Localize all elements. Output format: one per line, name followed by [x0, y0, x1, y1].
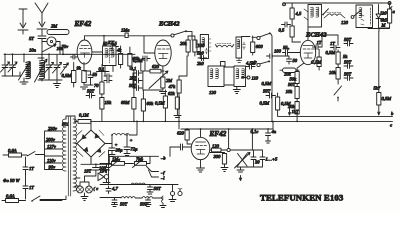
resistor 6,8M — [121, 70, 136, 122]
svg-text:50T: 50T — [344, 60, 352, 65]
resistor 0,5M (right) — [377, 93, 393, 106]
svg-text:501: 501 — [62, 122, 69, 127]
resistor 5k (det load) — [290, 3, 302, 26]
antenna 1 (dipole, far left) — [18, 9, 28, 34]
svg-text:50: 50 — [293, 58, 298, 63]
terminal circle + 110 — [242, 76, 259, 81]
svg-text:1T: 1T — [29, 185, 34, 190]
resistor 30k (V3) — [286, 82, 300, 102]
heater winding link — [75, 178, 80, 186]
svg-text:120: 120 — [341, 20, 349, 25]
switch (T6 output) — [322, 9, 360, 19]
capacitor 72u (electrolytic) — [124, 134, 138, 155]
IF transformer T1 — [103, 41, 118, 66]
svg-text:1T: 1T — [317, 40, 322, 45]
pot 1M (volume) — [100, 157, 134, 168]
IF transformer T7 — [356, 5, 373, 28]
svg-text:70: 70 — [94, 83, 99, 88]
wire: AVC vertical x=272 — [260, 53, 273, 122]
antenna 2 (main aerial) — [35, 3, 48, 35]
capacitor (x338 top) — [330, 41, 340, 50]
svg-text:110: 110 — [252, 76, 259, 81]
variable inductor L3 (with core) — [35, 54, 48, 82]
svg-text:20k: 20k — [180, 41, 188, 46]
switch contact (AM/PU) — [260, 32, 272, 52]
capacitor 55 (V1 cathode bypass) — [84, 71, 98, 82]
resistor 600 (IF damping) — [251, 36, 264, 55]
svg-text:+: + — [130, 138, 133, 143]
resistor 20k (V2) — [180, 36, 192, 52]
variable inductor L2 — [19, 54, 31, 84]
svg-text:50T: 50T — [120, 202, 128, 207]
capacitor 100 (series, AF) — [267, 46, 290, 59]
coil (AF filter, rounded) — [280, 68, 299, 73]
svg-text:1T: 1T — [330, 41, 335, 46]
wire: line b (upper, right half) — [278, 110, 394, 116]
resistor 1Ma (series) — [121, 28, 130, 38]
resistor 120 (V4 anode stopper) — [210, 144, 227, 152]
capacitor 30 (tone) — [251, 150, 260, 167]
resistor (det series) — [290, 26, 294, 42]
svg-text:200v: 200v — [46, 137, 56, 142]
capacitor 4n7 (V2 coupling) — [142, 56, 150, 61]
capacitor 0,1 (line c bypass) — [251, 129, 259, 150]
fuse 0,6A (mains bottom) — [2, 194, 26, 203]
capacitor 0,1 (osc grid) — [131, 66, 143, 76]
svg-text:ECH42: ECH42 — [158, 21, 180, 28]
svg-text:2k0: 2k0 — [197, 61, 204, 66]
svg-text:100: 100 — [99, 166, 107, 171]
svg-text:–l: –l — [160, 176, 165, 181]
svg-text:( c: ( c — [94, 186, 99, 191]
cathode network V1: resistor 0,5M — [62, 63, 76, 88]
node dots on bus — [4, 53, 64, 55]
capacitor 50T (tone net a) — [147, 185, 161, 195]
svg-text:EF42: EF42 — [74, 20, 92, 28]
svg-text:47k: 47k — [169, 84, 177, 89]
coil (tone net a) — [131, 183, 145, 185]
resistor 0,1M (T1 right) — [128, 47, 140, 70]
wire: V3 top connections — [292, 35, 338, 47]
svg-text:10n: 10n — [29, 48, 37, 53]
svg-text:+: + — [115, 142, 118, 147]
svg-text:620: 620 — [177, 131, 185, 136]
svg-text:55: 55 — [283, 45, 288, 50]
wire: -l terminal — [149, 170, 166, 181]
IF transformer T2 — [196, 35, 211, 59]
resistor 700 (AVC) — [94, 72, 104, 98]
svg-text:1Ma: 1Ma — [121, 28, 130, 33]
capacitor+ground (tone net c) — [145, 198, 151, 207]
node dots on buses — [90, 121, 274, 130]
tube ECH42 V3 envelope — [300, 40, 315, 64]
resistor 300 (V4 cathode) — [210, 153, 228, 172]
resistor 0,5M (osc grid leak) — [133, 56, 145, 90]
ground (V1 cathode) — [81, 82, 94, 89]
capacitor 50T a — [344, 37, 353, 46]
wire: V1 plate to T1 — [92, 51, 103, 53]
diode (detector, vertical) — [376, 5, 388, 29]
svg-text:50T: 50T — [344, 37, 352, 42]
wire: line c (long flat) — [92, 121, 393, 127]
resistor 2M (osc) — [161, 66, 173, 88]
svg-text:–b: –b — [160, 156, 166, 161]
node dot (bandswitch bus) — [103, 35, 105, 37]
capacitor 2kT — [130, 76, 143, 84]
ground (2nd IF) — [233, 90, 240, 94]
resistor 62k — [155, 90, 168, 121]
svg-text:110v: 110v — [47, 158, 57, 163]
wire+ground (tone bottom) — [237, 167, 263, 181]
svg-text:90v: 90v — [49, 165, 57, 170]
resistor 10k (V3 chain) — [329, 68, 340, 85]
svg-text:55: 55 — [93, 72, 98, 77]
svg-text:230v: 230v — [48, 126, 58, 131]
resistor 10k / 50k column (V3 cathode) — [284, 63, 304, 84]
wire: detector bottom rail — [368, 28, 390, 30]
power transformer TR1 primary taps — [45, 126, 63, 170]
resistor 30k (V3 divider c) — [288, 102, 299, 123]
capacitor 0,1 (V1 anode) — [97, 65, 110, 73]
fuse 0,6A (mains top) — [3, 148, 27, 157]
ground (osc) — [143, 88, 167, 94]
svg-text:c: c — [390, 122, 392, 127]
resistor 9k0 (V1 cathode) — [77, 63, 87, 86]
grid cap node V2 — [144, 34, 174, 37]
svg-text:5T: 5T — [29, 36, 34, 41]
capacitor 4,5kF — [246, 61, 257, 70]
capacitor 50T (V1 screen) — [86, 89, 95, 99]
tone pot (variable, output) — [230, 150, 253, 168]
wire: input bus y=54 — [4, 53, 135, 55]
tube EF42 V4 envelope — [191, 129, 210, 160]
svg-text:50T: 50T — [288, 82, 296, 87]
dial lamp 1 — [77, 182, 84, 193]
trimmer capacitor C3 — [45, 54, 54, 80]
resistor 100 (V2) — [188, 36, 205, 56]
capacitor 5T (tone net) — [106, 186, 118, 194]
svg-text:15k: 15k — [105, 100, 113, 105]
svg-text:300: 300 — [214, 154, 222, 159]
svg-text:62k: 62k — [168, 91, 176, 96]
pot 7k5 (tone) — [133, 156, 151, 167]
capacitor 1,5 (tone, electrolytic) — [254, 150, 278, 167]
wire: top rail y=3 — [283, 3, 392, 6]
switch (V3 out) — [334, 86, 342, 101]
resistor 0,1M (B+ from rect) — [75, 113, 91, 124]
variable capacitor C1 (tuning gang a) — [1, 54, 10, 76]
pot arrow (10k) — [42, 44, 64, 52]
grid wire to V1 — [63, 53, 77, 55]
ground (lamps) — [81, 193, 88, 201]
power transformer TR1 — [40, 116, 77, 200]
resistor 0,5M (V2 anode) — [168, 91, 181, 118]
capacitor 50 (AF bypass) — [287, 58, 298, 64]
arrow to line b — [378, 105, 380, 115]
svg-text:10k: 10k — [329, 70, 337, 75]
heater/bias RC network — [81, 156, 112, 182]
wire: V3 top to T6 — [307, 27, 309, 40]
IF transformer T5 (2nd IF sec) — [234, 66, 246, 87]
resistor (AVC divider) — [276, 93, 292, 110]
connector circle (antenna trimmer) — [42, 37, 60, 54]
choke L8 (smoothing) — [111, 121, 137, 143]
svg-text:50T: 50T — [344, 72, 352, 77]
capacitor 38u (electrolytic) — [109, 142, 123, 157]
wire: right feed x=378.5 — [374, 31, 381, 92]
wire: coil bottom bus — [38, 79, 62, 81]
resistor 0,15M — [100, 98, 112, 122]
wire: V2 anode vertical to 47k and bus — [179, 56, 187, 129]
capacitor 5T pair — [104, 74, 112, 83]
svg-text:60k: 60k — [147, 101, 155, 106]
capacitor 1T (mains a) — [23, 164, 34, 172]
capacitor 50T b — [344, 60, 353, 69]
svg-text:72μ: 72μ — [131, 147, 139, 152]
IF transformer T4 (2nd IF prim) — [208, 62, 225, 96]
pickup jack TA — [98, 166, 110, 185]
capacitor 1T (V3 anode) — [313, 40, 337, 56]
wire: volume pot to V4 grid — [170, 147, 177, 156]
tube EF42 V1 envelope — [77, 40, 92, 64]
capacitor (AVC) — [266, 93, 276, 98]
rectifier bridge GL1 — [76, 121, 112, 163]
resistor 60k (to bus) — [141, 90, 154, 121]
capacitor 1T (mains b) — [23, 183, 34, 191]
trimmer capacitor C4 — [53, 54, 62, 80]
wire: V1 top cap to bus — [85, 36, 105, 40]
capacitor (det filter) — [279, 22, 291, 34]
wire: bandswitch to V2 grid — [144, 40, 155, 53]
switch (band) — [174, 30, 192, 40]
terminal circle (IF out) — [242, 36, 261, 39]
coupling coils L5/L6 — [216, 44, 234, 48]
svg-text:EF42: EF42 — [209, 130, 227, 138]
svg-text:50k: 50k — [290, 77, 298, 82]
resistor (ratio det) — [379, 2, 392, 32]
svg-text:–f: –f — [160, 170, 165, 175]
coil (tone net c) — [140, 197, 160, 207]
IF transformer T3 — [236, 37, 246, 63]
wire: tone net bus — [100, 185, 178, 198]
svg-text:30: 30 — [255, 160, 260, 165]
capacitor ST (antenna series) — [29, 36, 46, 53]
svg-text:620: 620 — [152, 64, 160, 69]
wire: -f terminal — [147, 167, 166, 176]
svg-text:68M: 68M — [121, 100, 131, 105]
svg-text:127v: 127v — [47, 144, 57, 149]
node circle (output) — [227, 129, 230, 152]
capacitor (V3 grid) — [283, 45, 301, 55]
tube ECH42 V2 envelope — [155, 40, 171, 66]
variable capacitor C2 (tuning gang b) — [2, 54, 20, 76]
wire: osc caps vertical — [132, 73, 134, 88]
ground (V4 cathode) — [197, 160, 205, 172]
coil L1 in can (2M) — [47, 24, 69, 35]
svg-text:4n: 4n — [272, 129, 277, 134]
svg-text:50T: 50T — [154, 186, 162, 191]
svg-text:50T: 50T — [87, 89, 95, 94]
pot arrow (osc trim) — [149, 71, 168, 89]
capacitor 50T (osc) — [129, 83, 142, 91]
svg-text:19T: 19T — [84, 169, 92, 174]
svg-text:70v: 70v — [62, 44, 70, 49]
svg-text:1T: 1T — [29, 166, 34, 171]
label 50ohm + junction — [74, 116, 76, 122]
capacitor+ground (tone net b) — [112, 198, 118, 207]
trimmer capacitor C5 — [61, 63, 69, 74]
svg-text:TELEFUNKEN E103: TELEFUNKEN E103 — [260, 193, 344, 203]
coupling coils L7 — [324, 13, 349, 26]
switch contact 2 (PU) — [254, 60, 271, 67]
capacitor 5k0 (V2 osc) — [197, 51, 207, 67]
wire: pot bus to -b terminal — [109, 156, 167, 161]
svg-text:KK: KK — [107, 40, 115, 45]
capacitor 50T c — [344, 72, 353, 81]
capacitor 4n (line c) — [266, 129, 277, 143]
resistor 4k (T1 side) — [117, 46, 123, 68]
resistor 620 (V4 screen) — [177, 129, 191, 144]
svg-text:100: 100 — [274, 49, 282, 54]
svg-text:1…+5: 1…+5 — [266, 157, 278, 162]
IF transformer T6 — [304, 5, 322, 28]
wire: 70v feed — [62, 44, 70, 54]
wire: pickup feed vertical — [108, 150, 110, 185]
svg-text:130: 130 — [209, 90, 217, 95]
resistor 47k (V2 anode load) — [169, 80, 182, 93]
resistor 10 (V3) — [311, 49, 323, 70]
switch (mains bottom) — [31, 196, 62, 202]
svg-text:1kT: 1kT — [292, 109, 299, 114]
label 1kT with arrow onto line b — [288, 109, 298, 116]
resistor 5k — [336, 50, 348, 68]
wire: mains link — [25, 157, 27, 199]
dial lamp 2 — [80, 182, 98, 193]
capacitor (V4 grid coupling) — [177, 144, 192, 150]
wire: top bus y=35.8 to mixer — [104, 36, 144, 46]
ground (tuning section) — [54, 81, 61, 88]
wire: V4 supply branch — [181, 122, 273, 129]
wire: T1 bottom links — [105, 47, 119, 77]
resistor 620 (osc, horizontal) — [146, 64, 164, 73]
svg-text:600: 600 — [256, 44, 264, 49]
wire: between 2nd IF cans — [224, 67, 237, 89]
svg-text:Φo 50 W: Φo 50 W — [3, 178, 21, 183]
coil L4 (osc coupling) — [107, 40, 115, 50]
jack terminals (output) — [169, 185, 182, 202]
svg-text:5k7: 5k7 — [374, 86, 381, 91]
capacitor (V1 grid side) — [71, 55, 78, 59]
coil (tone net b) — [112, 197, 142, 207]
switch (mains top) — [27, 152, 45, 157]
svg-text:1k0: 1k0 — [380, 11, 387, 16]
svg-text:10k: 10k — [286, 89, 294, 94]
coil (tone net d, vertical) — [160, 196, 166, 208]
svg-text:38μ: 38μ — [116, 148, 124, 153]
